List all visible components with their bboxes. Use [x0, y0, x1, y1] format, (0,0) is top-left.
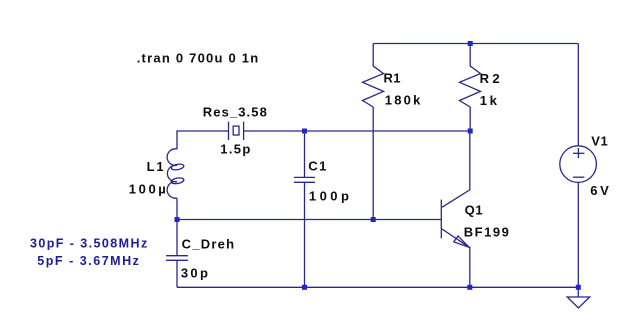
capacitor C1	[294, 131, 315, 287]
node junction collector/R2	[468, 129, 473, 134]
svg-text:R1: R1	[384, 71, 401, 86]
capacitor C_Dreh	[166, 220, 188, 288]
svg-text:BF199: BF199	[464, 225, 509, 240]
node junction crystal/C1	[302, 129, 307, 134]
svg-text:C1: C1	[308, 159, 326, 174]
ground	[567, 287, 590, 308]
node junction L1/C_Dreh/base	[175, 217, 180, 222]
svg-text:L1: L1	[147, 159, 164, 174]
node junction emitter/bottom	[467, 285, 472, 290]
svg-text:1k: 1k	[480, 93, 498, 108]
svg-text:R2: R2	[480, 71, 500, 86]
resistor R1	[363, 44, 384, 220]
wire top rail	[373, 43, 578, 45]
svg-text:100p: 100p	[309, 189, 349, 204]
svg-text:30pF - 3.508MHz: 30pF - 3.508MHz	[30, 237, 147, 251]
svg-text:.tran 0 700u 0 1n: .tran 0 700u 0 1n	[137, 51, 259, 66]
wire base net	[177, 219, 441, 221]
svg-text:100µ: 100µ	[129, 181, 166, 196]
svg-text:Q1: Q1	[465, 203, 483, 218]
svg-text:5pF - 3.67MHz: 5pF - 3.67MHz	[37, 254, 139, 268]
svg-text:V1: V1	[591, 133, 608, 148]
inductor L1	[167, 149, 184, 220]
node junction C1/bottom	[302, 285, 307, 290]
transistor Q1	[441, 131, 470, 287]
node junction V1/ground	[576, 285, 581, 290]
wire bottom rail	[177, 286, 578, 288]
svg-text:C_Dreh: C_Dreh	[182, 236, 235, 251]
node junction R1/base	[371, 217, 376, 222]
svg-text:6V: 6V	[590, 183, 609, 198]
wire crystal net	[177, 131, 470, 149]
svg-text:180k: 180k	[385, 93, 421, 108]
svg-text:1.5p: 1.5p	[220, 142, 250, 157]
resistor R2	[460, 44, 481, 132]
crystal Res_3.58	[229, 122, 244, 140]
svg-text:30p: 30p	[181, 266, 208, 281]
svg-text:Res_3.58: Res_3.58	[203, 104, 267, 119]
voltage source V1	[560, 44, 597, 288]
node junction top rail R2	[468, 41, 473, 46]
